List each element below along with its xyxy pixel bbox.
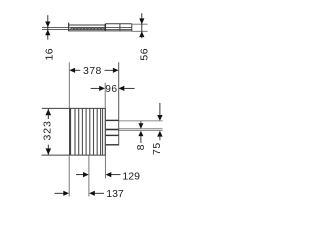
dimension 8: lower arrowhead — [138, 131, 143, 136]
extension line A: rung1 to right — [119, 120, 163, 122]
svg-text:129: 129 — [122, 170, 140, 182]
dimension 96: right tail — [124, 87, 135, 89]
dimension 137: left arrowhead — [63, 191, 69, 196]
svg-text:75: 75 — [151, 142, 163, 155]
top view: divider 2 — [119, 24, 121, 31]
dimension 16: upper arrowhead — [45, 22, 50, 28]
front view: grille right band outer lines — [102, 108, 104, 155]
dimension 137: left tail — [55, 192, 64, 194]
front view: grille slat lines — [75, 108, 101, 155]
extension line: grille left edge up (378 left) — [68, 62, 70, 108]
dimension 323: upper arrowhead — [46, 109, 52, 115]
dimension 129: right tail — [111, 174, 121, 176]
dimension 75: upper tail — [159, 103, 161, 116]
top view: shelf plate top line — [42, 26, 132, 28]
extension line C: rung2 bottom to right — [119, 130, 163, 132]
top view: shelf plate bottom line — [42, 28, 132, 30]
dimension 56: upper arrowhead — [139, 18, 144, 24]
dimension 56: dimension line — [141, 13, 143, 38]
extension line: grille right edge up (96 left) — [104, 83, 106, 109]
dimension 16: lower arrowhead — [45, 30, 50, 36]
top view: zigzag hatch — [71, 28, 105, 30]
dimension 378: right tail — [105, 69, 114, 71]
dimension 96: left tail — [91, 87, 101, 89]
dimension 8: upper tail — [140, 121, 142, 124]
dimension 75: upper arrowhead — [157, 115, 162, 121]
svg-text:137: 137 — [106, 188, 124, 200]
svg-text:96: 96 — [105, 84, 117, 95]
ladder rung 2 — [106, 129, 119, 131]
dimension 378: right arrowhead — [113, 68, 119, 73]
dimension 96: right arrowhead — [119, 86, 125, 91]
svg-text:378: 378 — [83, 65, 102, 77]
dimension 378: left arrowhead — [69, 68, 75, 73]
top view: bar top edge left section — [69, 24, 106, 26]
dimension 56: upper extension line — [132, 23, 148, 25]
ladder rung 4 — [106, 144, 119, 145]
dimension 56: lower extension line — [132, 30, 148, 32]
dimension 323: upper line segment — [47, 109, 49, 119]
dimension 8: lower tail — [140, 136, 142, 143]
dimension 323: lower line segment — [47, 145, 49, 155]
dimension 16: dimension line — [47, 15, 49, 39]
front view: body top line — [42, 107, 106, 109]
extension line B: rung2 top to right — [119, 128, 163, 130]
top view: raised box top edge — [105, 23, 132, 25]
extension line: grille left edge down — [68, 155, 70, 196]
dimension 56: lower arrowhead — [139, 31, 144, 37]
dimension 129: left arrowhead — [83, 172, 89, 177]
top view: divider 1 — [104, 24, 106, 31]
extension line: body right edge / ladder rail — [118, 62, 120, 145]
front view: grille left band — [69, 108, 71, 155]
dimension 129: left tail — [76, 174, 84, 176]
top view: bar bottom edge — [69, 30, 132, 32]
dimension 137: right tail — [94, 192, 104, 194]
dimension 129: right arrowhead — [106, 172, 112, 177]
dimension 75: lower arrowhead — [157, 131, 162, 137]
ladder rung 3 — [106, 135, 119, 136]
front view: body bottom line — [41, 154, 105, 156]
top view: bar left edge — [68, 23, 70, 32]
svg-text:16: 16 — [43, 48, 55, 61]
dimension 75: lower tail — [159, 136, 161, 140]
top view: bar right end — [131, 24, 133, 32]
ladder rung 1 — [106, 120, 119, 121]
svg-text:56: 56 — [139, 48, 151, 61]
dimension 323: lower arrowhead — [46, 148, 52, 154]
dimension 96: left arrowhead — [99, 86, 105, 91]
extension line: grille right edge down — [104, 155, 106, 178]
dimension 378: left tail — [75, 69, 81, 71]
svg-text:8: 8 — [135, 144, 147, 150]
extension line: drain centre down — [88, 155, 90, 196]
svg-text:323: 323 — [42, 120, 54, 140]
dimension 137: right arrowhead — [89, 191, 95, 196]
dimension 8: upper arrowhead — [138, 123, 143, 128]
